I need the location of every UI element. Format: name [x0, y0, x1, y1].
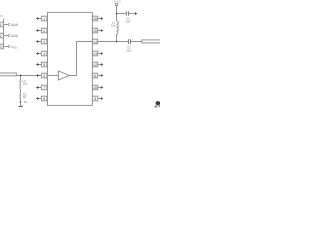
- svg-text:GND: GND: [11, 23, 19, 27]
- svg-text:8: 8: [43, 97, 45, 101]
- svg-text:9: 9: [94, 97, 96, 101]
- svg-text:16: 16: [93, 17, 97, 21]
- svg-text:68: 68: [24, 100, 28, 104]
- svg-text:GND: GND: [11, 34, 19, 38]
- svg-text:1: 1: [0, 23, 2, 27]
- svg-text:10: 10: [93, 86, 97, 90]
- svg-text:3: 3: [43, 40, 45, 44]
- svg-text:P1-5: P1-5: [114, 0, 121, 4]
- svg-text:68: 68: [23, 95, 27, 99]
- svg-text:10u: 10u: [111, 23, 116, 27]
- svg-text:2: 2: [0, 34, 2, 38]
- svg-text:P1: P1: [0, 14, 4, 18]
- svg-text:12: 12: [93, 63, 97, 67]
- svg-text:VDD: VDD: [11, 45, 17, 50]
- svg-text:13: 13: [93, 52, 97, 56]
- svg-text:10u: 10u: [22, 82, 27, 86]
- svg-text:4: 4: [43, 52, 45, 56]
- svg-text:2: 2: [43, 29, 45, 33]
- svg-text:5: 5: [43, 63, 45, 67]
- svg-text:1: 1: [43, 17, 45, 21]
- svg-text:7: 7: [43, 86, 45, 90]
- svg-text:15: 15: [93, 29, 97, 33]
- svg-text:10n: 10n: [126, 49, 131, 53]
- svg-text:6: 6: [43, 74, 45, 78]
- svg-text:10n: 10n: [125, 20, 130, 24]
- svg-text:11: 11: [93, 74, 97, 78]
- svg-text:14: 14: [93, 40, 97, 44]
- svg-text:3: 3: [0, 45, 2, 49]
